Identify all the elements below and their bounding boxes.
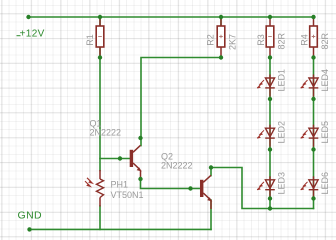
svg-text:VT50N1: VT50N1 [111, 190, 144, 200]
svg-text:LED6: LED6 [320, 172, 330, 195]
svg-text:GND: GND [18, 209, 43, 221]
svg-text:LED1: LED1 [277, 69, 287, 92]
svg-text:R4: R4 [300, 34, 310, 46]
svg-text:PH1: PH1 [111, 180, 129, 190]
svg-text:LED3: LED3 [277, 172, 287, 195]
svg-text:LED2: LED2 [277, 121, 287, 144]
svg-text:R1: R1 [85, 34, 95, 46]
svg-text:2N2222: 2N2222 [90, 128, 122, 138]
svg-text:LED5: LED5 [320, 121, 330, 144]
svg-text:2N2222: 2N2222 [161, 161, 193, 171]
svg-text:82R: 82R [320, 32, 330, 49]
svg-text:R2: R2 [206, 34, 216, 46]
svg-text:+12V: +12V [20, 29, 45, 40]
svg-text:R3: R3 [256, 34, 266, 46]
svg-text:LED4: LED4 [320, 69, 330, 92]
svg-text:82R: 82R [277, 32, 287, 49]
svg-text:2K7: 2K7 [228, 34, 238, 50]
